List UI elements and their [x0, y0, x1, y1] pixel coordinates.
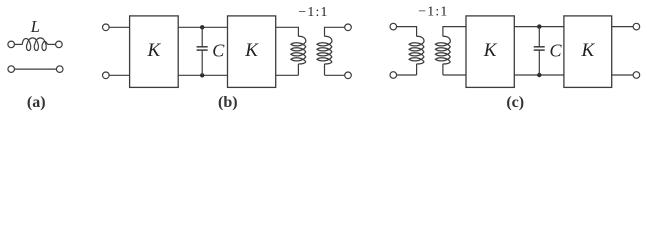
svg-text:C: C — [212, 40, 225, 60]
svg-text:K: K — [483, 40, 498, 61]
svg-text:L: L — [30, 17, 40, 36]
svg-text:K: K — [580, 40, 595, 61]
svg-text:−1:1: −1:1 — [298, 4, 328, 19]
svg-text:K: K — [244, 40, 259, 61]
svg-text:(a): (a) — [27, 94, 46, 111]
svg-text:(c): (c) — [506, 94, 524, 111]
svg-text:C: C — [549, 40, 562, 60]
svg-text:−1:1: −1:1 — [418, 4, 448, 19]
svg-text:K: K — [147, 40, 162, 61]
svg-text:(b): (b) — [218, 94, 238, 111]
